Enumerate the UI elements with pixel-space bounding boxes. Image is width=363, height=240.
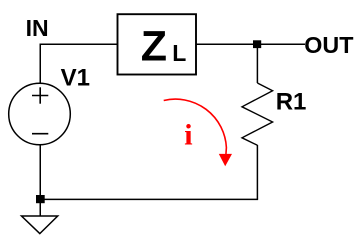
wire: bottom junction to ground	[39, 201, 41, 216]
svg-text:V1: V1	[61, 64, 90, 91]
svg-text:i: i	[184, 119, 192, 152]
svg-text:Z: Z	[141, 22, 167, 70]
node junction top (OUT node)	[253, 40, 261, 48]
svg-text:R1: R1	[276, 88, 307, 115]
svg-text:OUT: OUT	[304, 32, 353, 58]
wire: IN corner vertical down to V1 top	[39, 44, 41, 84]
wire: IN corner horizontal to ZL box	[40, 43, 118, 45]
node junction bottom (ground node)	[36, 195, 45, 203]
current arrow arc (red)	[164, 99, 227, 154]
wire: bottom horizontal	[40, 198, 259, 200]
svg-text:IN: IN	[26, 15, 49, 41]
wire: resistor bottom to bottom-right corner	[256, 145, 258, 199]
ground symbol	[22, 216, 58, 234]
impedance block ZL box	[118, 14, 197, 74]
wire: ZL box right to junction	[196, 43, 255, 45]
V1 minus sign	[32, 133, 48, 135]
voltage source V1 circle	[9, 83, 71, 145]
V1 plus sign	[32, 95, 48, 97]
resistor R1 zigzag	[242, 83, 273, 145]
svg-text:L: L	[172, 40, 186, 66]
wire: V1 bottom to bottom junction	[39, 145, 41, 198]
wire: junction down to resistor top	[256, 46, 258, 83]
wire: junction to OUT	[259, 43, 305, 45]
current arrowhead (red)	[219, 154, 232, 166]
